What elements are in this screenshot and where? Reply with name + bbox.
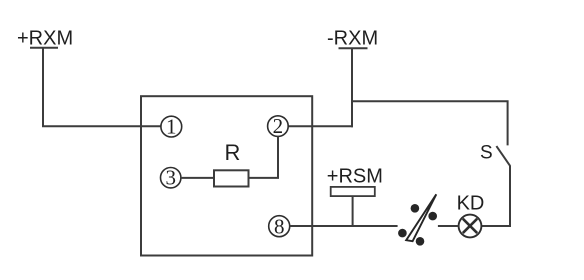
polarized relay contact: upper-left dot bbox=[411, 204, 420, 213]
svg-text:8: 8 bbox=[274, 214, 285, 238]
svg-text:3: 3 bbox=[165, 166, 176, 190]
terminal bar +RXM bbox=[30, 47, 58, 49]
terminal bar -RXM bbox=[339, 47, 368, 49]
svg-text:R: R bbox=[225, 140, 241, 165]
relay box bbox=[141, 96, 312, 255]
svg-text:1: 1 bbox=[166, 115, 177, 139]
wire pin 3 to resistor bbox=[181, 177, 214, 179]
wire pin 8 to contact bbox=[290, 225, 398, 227]
polarized relay contact: lower-left dot bbox=[398, 229, 407, 238]
wire switch to lamp bbox=[481, 166, 510, 226]
wire -RXM down bbox=[351, 48, 353, 127]
resistor R bbox=[214, 170, 249, 186]
svg-text:S: S bbox=[480, 143, 493, 164]
polarized relay contact blade bbox=[406, 194, 436, 241]
svg-text:2: 2 bbox=[273, 114, 284, 138]
switch S blade bbox=[496, 146, 510, 166]
svg-text:+RXM: +RXM bbox=[17, 28, 73, 50]
wire +RXM to pin 1 bbox=[43, 48, 161, 127]
terminal 1 bbox=[161, 115, 182, 139]
svg-text:KD: KD bbox=[457, 193, 485, 215]
polarized relay contact: upper-right dot bbox=[428, 212, 437, 221]
lamp KD bbox=[459, 215, 482, 238]
polarized relay contact: lower-right dot bbox=[416, 237, 425, 246]
wire pin 2 to -RXM node bbox=[288, 125, 353, 127]
terminal 8 bbox=[269, 214, 290, 238]
wire node to switch S bbox=[352, 101, 508, 145]
svg-text:-RXM: -RXM bbox=[327, 28, 378, 50]
terminal 3 bbox=[161, 166, 181, 190]
terminal 2 bbox=[268, 114, 289, 138]
wire contact to lamp bbox=[438, 225, 459, 227]
wire resistor to pin 2 bbox=[249, 136, 279, 178]
terminal box +RSM bbox=[331, 187, 375, 196]
svg-text:+RSM: +RSM bbox=[327, 165, 383, 187]
wire +RSM down bbox=[352, 196, 354, 226]
